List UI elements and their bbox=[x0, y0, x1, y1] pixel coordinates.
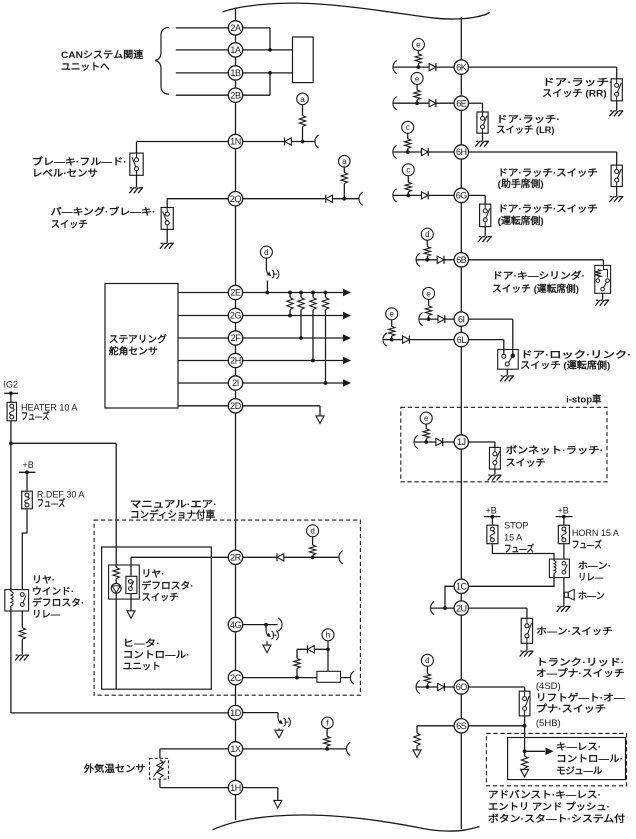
node: on 2E line at x=325.5 bbox=[324, 291, 328, 295]
keyless control module box bbox=[508, 738, 626, 780]
wire: steering sensor to bus pin bbox=[178, 360, 228, 362]
wire: 1B right into CAN junction box bbox=[243, 72, 293, 74]
fuse HORN 15 A bbox=[558, 525, 569, 544]
svg-text:コンディショナ付車: コンディショナ付車 bbox=[130, 509, 215, 521]
svg-text:ブレ—キ·フル—ド·: ブレ—キ·フル—ド· bbox=[32, 156, 127, 168]
node: on 2H line at x=313 bbox=[311, 359, 315, 363]
svg-text:外気温センサ: 外気温センサ bbox=[83, 763, 146, 775]
node: junction on 4G stub bbox=[264, 623, 268, 627]
svg-text:ドア·ラッチ·: ドア·ラッチ· bbox=[496, 115, 560, 126]
wire: 6K left stub bbox=[394, 66, 455, 68]
svg-text:h: h bbox=[326, 631, 330, 640]
svg-text:e: e bbox=[416, 40, 421, 49]
wire: 2B right to junction column bbox=[243, 94, 270, 96]
wire: h junction down to resistor box bbox=[327, 649, 329, 671]
connector half on 1N wire end bbox=[315, 135, 319, 148]
svg-text:6G: 6G bbox=[456, 191, 468, 201]
node: junction on 2Q line bbox=[342, 197, 346, 201]
node: junction on 6K stub bbox=[417, 65, 421, 69]
connector pin 6H bbox=[454, 145, 468, 159]
svg-text:d: d bbox=[310, 527, 314, 536]
svg-text:ヒ—タ·: ヒ—タ· bbox=[123, 638, 160, 650]
connector half on 2U stub bbox=[430, 602, 434, 615]
svg-text:スイッチ (RR): スイッチ (RR) bbox=[542, 88, 607, 99]
wire: 1D branch to open arrow bbox=[278, 728, 280, 730]
wire: 1D right to inline connector symbol bbox=[243, 712, 278, 714]
svg-text:スイッチ (運転席側): スイッチ (運転席側) bbox=[520, 359, 610, 371]
wire: steering sensor to bus pin bbox=[178, 405, 228, 407]
wire: 2R right with diode to connector d bbox=[243, 556, 340, 558]
ring terminal e (6I) bbox=[423, 287, 435, 299]
wire: 2D line right to open arrow bbox=[243, 405, 320, 407]
connector pin 6K bbox=[454, 60, 468, 74]
svg-text:6L: 6L bbox=[457, 335, 467, 345]
wire: 6E left stub bbox=[394, 102, 455, 104]
ring terminal e (1J) bbox=[420, 412, 432, 424]
connector pin 4G bbox=[228, 617, 242, 631]
svg-text:6H: 6H bbox=[456, 147, 467, 157]
svg-text:d: d bbox=[264, 248, 268, 257]
fuse STOP 15 A bbox=[487, 525, 498, 544]
svg-text:6I: 6I bbox=[458, 314, 465, 324]
bonnet latch switch bbox=[489, 447, 500, 469]
ambient temperature sensor (thermistor, dashed) bbox=[150, 758, 169, 779]
wire: 1N left to brake fluid level sensor bbox=[137, 141, 229, 143]
svg-text:(運転席側): (運転席側) bbox=[498, 215, 544, 227]
diode on 1J line (pointing right) bbox=[436, 438, 443, 445]
wire: 2A right to junction column bbox=[243, 27, 270, 29]
svg-text:スイッチ (運転席側): スイッチ (運転席側) bbox=[492, 283, 579, 295]
svg-text:c: c bbox=[406, 166, 410, 175]
connector pin 2A bbox=[228, 21, 242, 35]
svg-text:6E: 6E bbox=[456, 98, 467, 108]
svg-text:2G: 2G bbox=[230, 311, 242, 321]
svg-text:(4SD): (4SD) bbox=[536, 681, 561, 692]
wire: left bus vertical bbox=[235, 8, 237, 821]
svg-text:ドア·キ—シリンダ·: ドア·キ—シリンダ· bbox=[492, 270, 585, 282]
connector half on 6O stub bbox=[416, 680, 420, 693]
ring terminal h bbox=[322, 629, 334, 641]
svg-text:e: e bbox=[415, 74, 420, 83]
node: junction on 6O stub bbox=[426, 685, 430, 689]
connector pin 1J bbox=[454, 435, 468, 449]
wire: junction right to defroster indicator feed bbox=[11, 442, 116, 444]
node: junction 1B/2B bbox=[268, 71, 272, 75]
svg-text:モジュ—ル: モジュ—ル bbox=[556, 766, 602, 777]
ground: door latch switch driver bbox=[484, 227, 486, 236]
connector pin 2I bbox=[228, 376, 242, 390]
wire: 1J right to bonnet latch switch bbox=[469, 441, 495, 443]
resistor to ring a (1N) bbox=[299, 116, 305, 127]
wire: 6B right to door key cylinder switch bbox=[469, 259, 604, 261]
svg-text:2A: 2A bbox=[230, 23, 241, 33]
diode on 6H line (pointing right) bbox=[421, 148, 428, 155]
connector pin 1A bbox=[228, 43, 242, 57]
svg-text:1N: 1N bbox=[230, 137, 241, 147]
ground: horn switch bbox=[526, 643, 528, 650]
connector half on 6K stub bbox=[393, 61, 397, 74]
svg-text:コントロ—ル·: コントロ—ル· bbox=[556, 754, 623, 765]
ground: door latch switch RR bbox=[616, 101, 618, 111]
svg-text:d: d bbox=[425, 230, 429, 239]
svg-text:ウインド·: ウインド· bbox=[32, 586, 74, 597]
svg-text:2B: 2B bbox=[230, 90, 241, 100]
diode on 6L line (pointing right) bbox=[403, 336, 410, 343]
wire: 6K right to door latch switch RR bbox=[469, 66, 617, 68]
svg-text:6K: 6K bbox=[456, 62, 467, 72]
door lock link switch (driver side) bbox=[498, 350, 519, 370]
svg-text:キ—レス·: キ—レス· bbox=[556, 742, 601, 753]
svg-text:6O: 6O bbox=[456, 682, 468, 692]
inline connector symbol below 4G junction bbox=[265, 625, 267, 631]
node: junction on 2U line bbox=[443, 606, 447, 610]
svg-text:エントリ アンド プッシュ·: エントリ アンド プッシュ· bbox=[488, 801, 610, 813]
svg-text:ドア·ラッチ·スイッチ: ドア·ラッチ·スイッチ bbox=[498, 204, 598, 215]
wire: 2U right to horn switch bbox=[469, 607, 527, 609]
svg-text:デフロスタ·: デフロスタ· bbox=[142, 580, 194, 592]
horn relay contact bbox=[562, 562, 566, 566]
node: junction with 6S line bbox=[523, 724, 527, 728]
resistor to ring f bbox=[324, 736, 330, 746]
wire: relay contact down to resistor and ground bbox=[21, 611, 23, 628]
ground: door lock link switch bbox=[506, 369, 508, 375]
svg-text:ホ—ン·スイッチ: ホ—ン·スイッチ bbox=[536, 627, 612, 638]
rear defroster switch bbox=[126, 576, 137, 593]
svg-text:スイッチ: スイッチ bbox=[51, 220, 88, 231]
svg-text:フュ—ズ: フュ—ズ bbox=[37, 498, 66, 510]
brace for CAN system units bbox=[155, 27, 169, 94]
parking brake switch bbox=[161, 208, 173, 230]
wire: +B to STOP fuse bbox=[491, 517, 493, 526]
wire: 4G right stub bbox=[243, 624, 278, 626]
connector pin 2D bbox=[228, 399, 242, 413]
node: junction on 6H stub bbox=[406, 150, 410, 154]
connector pin 6E bbox=[454, 96, 468, 110]
svg-text:2R: 2R bbox=[230, 553, 242, 563]
svg-text:オ—プナ·スイッチ: オ—プナ·スイッチ bbox=[536, 668, 625, 680]
node: junction on 2R line bbox=[311, 555, 315, 559]
svg-text:1A: 1A bbox=[230, 45, 241, 55]
wire: 6L right to door lock link switch bbox=[469, 339, 504, 341]
diode on 1N line (pointing left) bbox=[284, 138, 286, 146]
connector pin 2F bbox=[228, 331, 242, 345]
node: junction on 2C line bbox=[295, 676, 299, 680]
diode on 2R line (pointing left) bbox=[276, 553, 278, 561]
connector pin 1D bbox=[228, 705, 242, 719]
node: junction on 1J stub bbox=[424, 440, 428, 444]
svg-text:リレ—: リレ— bbox=[578, 573, 604, 584]
resistor to ring e (6K) bbox=[417, 50, 419, 54]
svg-text:ドア·ロック·リンク·: ドア·ロック·リンク· bbox=[520, 350, 631, 361]
svg-text:1D: 1D bbox=[230, 708, 242, 718]
resistor up from 2C line bbox=[296, 668, 298, 677]
svg-text:舵角センサ: 舵角センサ bbox=[109, 345, 158, 357]
connector half on 2R wire end bbox=[339, 551, 343, 564]
connector pin 2Q bbox=[228, 192, 242, 206]
node: junction on 1N line bbox=[301, 140, 305, 144]
connector pin 2U bbox=[454, 601, 468, 615]
svg-text:スイッチ: スイッチ bbox=[142, 593, 179, 604]
rear window defroster relay box bbox=[5, 590, 29, 611]
svg-text:a: a bbox=[300, 95, 305, 104]
wire: 1X left to ambient temperature sensor bbox=[160, 748, 228, 750]
node: junction on 6G stub bbox=[406, 194, 410, 198]
node: junction on 6E stub bbox=[415, 101, 419, 105]
svg-text:+B: +B bbox=[558, 505, 569, 515]
connector half on 6E stub bbox=[393, 97, 397, 110]
wire: lamp to heater unit box bottom bbox=[115, 599, 117, 689]
svg-text:c: c bbox=[406, 123, 410, 132]
resistor pull-up 2E to 2H bbox=[312, 293, 314, 298]
svg-text:6B: 6B bbox=[456, 255, 467, 265]
wire: 2F line right with arrow bbox=[243, 337, 344, 339]
svg-text:ユニット: ユニット bbox=[123, 662, 161, 673]
connector half on 1X wire end bbox=[346, 742, 350, 755]
connector pin 2C bbox=[228, 670, 242, 684]
diode on 2Q line (pointing left) bbox=[325, 195, 327, 203]
node: junction 1A/2A bbox=[268, 48, 272, 52]
rear defroster switch unit box bbox=[109, 565, 140, 599]
connector half on 6L stub bbox=[383, 333, 387, 346]
ring terminal c (6H) bbox=[402, 121, 414, 133]
resistor pull-up 2E to 2I bbox=[325, 293, 327, 298]
ring terminal f bbox=[322, 717, 334, 729]
connector half on 6I stub bbox=[419, 313, 423, 326]
wire: 6G left stub bbox=[393, 194, 454, 196]
svg-text:1J: 1J bbox=[457, 437, 466, 447]
svg-text:フュ—ズ: フュ—ズ bbox=[572, 539, 602, 551]
wire: 1H right to open arrow bbox=[243, 787, 278, 789]
resistor to ring e (6I) bbox=[428, 299, 430, 306]
svg-text:4G: 4G bbox=[230, 620, 242, 630]
svg-text:ユニットへ: ユニットへ bbox=[61, 62, 110, 73]
wire: 2R left to defroster switch bbox=[131, 556, 228, 558]
wire: 2U left to connector half bbox=[431, 607, 454, 609]
connector pin 6O bbox=[454, 680, 468, 694]
wire: steering sensor to bus pin bbox=[178, 315, 228, 317]
ground: door key cylinder switch bbox=[602, 293, 604, 299]
fuse R.DEF 30 A bbox=[22, 491, 33, 509]
ground: brake fluid sensor bbox=[136, 175, 138, 187]
ground: bonnet latch switch bbox=[494, 469, 496, 474]
connector half on 6H stub bbox=[393, 145, 397, 158]
svg-text:ホ—ン·: ホ—ン· bbox=[578, 561, 611, 572]
svg-text:6S: 6S bbox=[456, 721, 467, 731]
resistor inside keyless module bbox=[524, 751, 526, 756]
node: on 2G line at x=290 bbox=[288, 314, 292, 318]
wire: 2Q left to parking brake switch bbox=[167, 198, 228, 200]
wire: 1X right with resistor to ring f bbox=[243, 748, 347, 750]
connector pin 6S bbox=[454, 719, 468, 733]
wire: +B down to R.DEF fuse bbox=[26, 472, 28, 491]
svg-text:リヤ·: リヤ· bbox=[32, 575, 55, 586]
dashed box: i-stop vehicles bbox=[401, 407, 607, 482]
svg-text:ボンネット·ラッチ·: ボンネット·ラッチ· bbox=[506, 445, 604, 457]
node: junction on 6L stub bbox=[390, 338, 394, 342]
resistor to ring a (2Q) bbox=[341, 173, 347, 184]
wire: junction down to defroster relay coil bbox=[10, 443, 12, 589]
svg-text:ドア·ラッチ·スイッチ: ドア·ラッチ·スイッチ bbox=[498, 168, 598, 179]
wire: 2G line right with arrow bbox=[243, 315, 344, 317]
connector half on 1J stub bbox=[414, 435, 418, 448]
svg-text:1B: 1B bbox=[230, 68, 241, 78]
ring terminal d above 2E bbox=[260, 246, 272, 258]
svg-text:IG2: IG2 bbox=[4, 380, 19, 390]
wire: 4G branch to open arrow bbox=[266, 641, 268, 645]
node: on 2F line at x=301 bbox=[299, 336, 303, 340]
wire: HEATER fuse down to junction bbox=[10, 421, 12, 444]
arrow: keyless module signal bbox=[525, 750, 545, 752]
wire: 1J left stub bbox=[415, 441, 455, 443]
wire: 6O right to trunk/liftgate opener switch bbox=[469, 686, 525, 688]
svg-text:レベル·センサ: レベル·センサ bbox=[32, 169, 98, 180]
connector half on 2Q wire end bbox=[359, 192, 363, 205]
relay coil bbox=[11, 592, 13, 606]
wire: control-module outline top curve bbox=[223, 3, 490, 19]
wire: 1N right with diode to connector a bbox=[243, 141, 316, 143]
wire: 6H left stub bbox=[393, 151, 454, 153]
ring terminal d (6B) bbox=[421, 228, 433, 240]
ground: defroster relay bbox=[15, 655, 29, 661]
diode on 6G line (pointing right) bbox=[421, 192, 428, 199]
resistor pull-up 2E to 2F bbox=[300, 293, 302, 298]
svg-text:HORN 15 A: HORN 15 A bbox=[572, 528, 619, 538]
wire: defroster switch to open arrow bbox=[130, 594, 132, 611]
steering angle sensor box bbox=[105, 284, 178, 409]
wire: sensor to 1H bbox=[159, 779, 161, 788]
ring terminal e (6E) bbox=[411, 72, 423, 84]
ring terminal e (6K) bbox=[412, 39, 424, 51]
resistor to ring e (6E) bbox=[416, 84, 418, 90]
svg-text:ドア·ラッチ·: ドア·ラッチ· bbox=[542, 78, 613, 89]
connector pin 6L bbox=[454, 332, 468, 346]
wire: R.DEF fuse down to relay (with jog) bbox=[22, 509, 27, 590]
door latch switch (RR) bbox=[611, 79, 622, 101]
svg-text:トランク·リッド·: トランク·リッド· bbox=[536, 657, 625, 668]
node: HEATER branch junction bbox=[9, 441, 13, 445]
resistor in defroster switch bbox=[113, 568, 119, 579]
svg-text:プナ·スイッチ: プナ·スイッチ bbox=[536, 703, 606, 715]
svg-text:a: a bbox=[342, 157, 347, 166]
node: on 2E line at x=301 bbox=[299, 291, 303, 295]
connector half on 4G stub end bbox=[278, 618, 282, 631]
relay contact bbox=[20, 593, 24, 597]
wire: control-module outline bottom curve bbox=[213, 815, 480, 831]
connector pin 2G bbox=[228, 308, 242, 322]
wire: resistor box right to connector half bbox=[341, 677, 352, 679]
node: junction of d-wire on 2E line bbox=[266, 291, 270, 295]
resistor to ring d (6B) bbox=[426, 240, 428, 247]
wire: 1B stub left bbox=[176, 72, 229, 74]
connector pin 2H bbox=[228, 353, 242, 367]
wire: 2Q right with diode to connector a bbox=[243, 198, 360, 200]
node: junction inside keyless module bbox=[523, 749, 527, 753]
wire: 1C left jog down to 2U line bbox=[445, 586, 454, 608]
resistor to ring c (6H) bbox=[407, 133, 409, 139]
svg-text:+B: +B bbox=[486, 505, 497, 515]
svg-text:2Q: 2Q bbox=[230, 194, 242, 204]
ring terminal a (2Q) bbox=[339, 155, 351, 167]
svg-text:2U: 2U bbox=[456, 603, 467, 613]
node: junction on 6B stub bbox=[425, 258, 429, 262]
svg-text:i-stop車: i-stop車 bbox=[566, 394, 602, 406]
ground: parking brake switch bbox=[166, 229, 168, 242]
svg-text:STOP: STOP bbox=[504, 520, 528, 530]
svg-text:2F: 2F bbox=[231, 333, 242, 343]
wire: 2E line right with arrow bbox=[243, 292, 344, 294]
resistor to ring e (1J) bbox=[425, 424, 427, 429]
svg-text:e: e bbox=[426, 289, 431, 298]
wire: STOP fuse to horn relay coil bbox=[492, 544, 554, 559]
svg-text:2C: 2C bbox=[230, 673, 242, 683]
wire: 2B stub left bbox=[176, 94, 229, 96]
illumination lamp in defroster switch bbox=[111, 583, 121, 593]
svg-text:アドバンスト·キ—レス·: アドバンスト·キ—レス· bbox=[488, 789, 601, 801]
wire: 6I right to door lock link switch bbox=[469, 318, 513, 320]
svg-text:2H: 2H bbox=[230, 356, 241, 366]
horn relay coil bbox=[554, 561, 556, 574]
door key cylinder switch (driver side) bbox=[595, 265, 611, 293]
node: on 2I line at x=325.5 bbox=[324, 381, 328, 385]
svg-text:スイッチ (LR): スイッチ (LR) bbox=[496, 125, 554, 136]
wire: relay coil down and right to 1D bbox=[10, 611, 12, 713]
connector pin 1H bbox=[228, 780, 242, 794]
open arrow inside keyless module bbox=[521, 769, 529, 777]
svg-text:CANシステム関連: CANシステム関連 bbox=[61, 49, 144, 61]
node: junction below ring h bbox=[326, 647, 330, 651]
node: junction on 6I stub bbox=[427, 317, 431, 321]
horn (speaker symbol) bbox=[564, 592, 568, 597]
ground: door latch switch LR bbox=[482, 133, 484, 141]
wire: steering sensor to bus pin bbox=[178, 337, 228, 339]
svg-text:2I: 2I bbox=[232, 378, 239, 388]
svg-text:2D: 2D bbox=[230, 401, 242, 411]
wire: steering sensor to bus pin bbox=[178, 292, 228, 294]
CAN termination box bbox=[293, 37, 314, 83]
resistor to ring d (6O) bbox=[426, 666, 428, 674]
wire: opener switch down to keyless module bbox=[524, 716, 526, 740]
svg-text:e: e bbox=[389, 310, 394, 319]
wire: right bus vertical bbox=[460, 17, 462, 829]
horn switch bbox=[521, 618, 532, 643]
connector pin 6G bbox=[454, 188, 468, 202]
wire: 6I left stub bbox=[419, 318, 454, 320]
svg-text:2E: 2E bbox=[230, 288, 241, 298]
wire: 6O left stub bbox=[417, 686, 455, 688]
wire: 2C right to resistor box bbox=[243, 677, 317, 679]
diode on 6B line (pointing right) bbox=[437, 256, 444, 263]
svg-text:リフトゲ—ト·オ—: リフトゲ—ト·オ— bbox=[536, 692, 625, 704]
connector pin 2B bbox=[228, 88, 242, 102]
ring terminal c (6G) bbox=[402, 164, 414, 176]
svg-text:1X: 1X bbox=[230, 744, 241, 754]
connector half on 2C wire end bbox=[350, 671, 354, 684]
resistor to ring c (6G) bbox=[407, 176, 409, 183]
wire: d down to 2E with inline connector symbol bbox=[265, 258, 267, 269]
ring terminal d (2R) bbox=[307, 525, 319, 537]
svg-text:ボタン·スタ—ト·システム付: ボタン·スタ—ト·システム付 bbox=[488, 813, 626, 825]
diode on 6I line (pointing right) bbox=[438, 316, 445, 323]
svg-text:ホ—ン: ホ—ン bbox=[578, 591, 605, 602]
connector pin 1C bbox=[454, 579, 468, 593]
connector pin 2R bbox=[228, 550, 242, 564]
wire: 6L left stub bbox=[384, 339, 455, 341]
trunk lid / liftgate opener switch bbox=[519, 691, 530, 716]
connector pin 1X bbox=[228, 742, 242, 756]
diode on 6O line (pointing right) bbox=[438, 683, 445, 690]
wire: 6G right to door latch switch (driver) bbox=[469, 194, 486, 196]
ground: horn bbox=[557, 606, 571, 612]
